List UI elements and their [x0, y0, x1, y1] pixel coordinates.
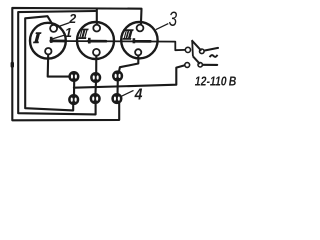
wire col2 row1-row2: [94, 82, 97, 95]
svg-text:12-110 В: 12-110 В: [195, 74, 237, 88]
leader line label 1: [51, 35, 64, 39]
wire lamp III bottom to col3 row1: [119, 55, 138, 71]
terminal block col3 row1: [112, 70, 123, 81]
lamp II center contact dash: [89, 40, 107, 43]
lamp socket III circle: [121, 22, 157, 58]
lamp III bottom terminal: [135, 49, 141, 55]
terminal block col2 row1: [90, 72, 101, 83]
ink blob on outer left wire: [11, 62, 14, 68]
terminal block col2 row2: [90, 93, 101, 104]
lamp III top terminal: [137, 25, 144, 32]
lamp II bottom terminal: [93, 49, 100, 56]
wire switch lower pole to supply: [202, 64, 217, 66]
terminal block col3 row2: [111, 93, 122, 104]
leader line label 2: [57, 23, 70, 27]
switch lower blade: [193, 56, 200, 64]
lamp I top terminal: [50, 25, 57, 32]
switch lower pole right contact: [198, 63, 202, 67]
terminal block col1 row1: [68, 71, 79, 82]
svg-text:4: 4: [134, 86, 143, 103]
svg-text:2: 2: [68, 12, 76, 26]
switch upper pole left contact: [185, 47, 190, 52]
switch lower pole left contact: [185, 63, 190, 68]
lamp III center contact dash: [134, 40, 151, 43]
wire drop to lamp II top terminal: [96, 9, 98, 25]
lamp I bottom terminal: [45, 48, 51, 54]
wire col1 row1-row2: [73, 81, 75, 96]
label socket III roman numeral: [123, 29, 134, 39]
wire lamp I bottom to col1 row1: [48, 54, 70, 76]
lamp I center contact dash: [51, 40, 65, 43]
wire loop W3 outer: col3 row2 to lamp III shell: [12, 8, 141, 120]
lamp I center contact tick: [50, 37, 53, 43]
lamp III center contact tick: [133, 38, 136, 43]
lamp socket I circle: [30, 23, 66, 59]
wire lamp II bottom to col2 row1: [95, 56, 97, 73]
lamp II top terminal: [93, 25, 100, 32]
wire col3 row1-row2: [116, 80, 118, 95]
leader line label 3: [156, 24, 168, 30]
wire switch upper pole to supply: [204, 48, 218, 51]
svg-text:3: 3: [169, 8, 178, 31]
lamp socket II circle: [77, 22, 114, 59]
lamp II center contact tick: [88, 38, 91, 44]
switch upper pole right contact: [200, 49, 205, 54]
switch link bar: [191, 41, 194, 57]
label socket II roman numeral: [78, 29, 89, 39]
svg-text:1: 1: [65, 25, 72, 40]
wire loop W2 middle: col2 row2 to lamp II shell: [18, 11, 95, 114]
terminal block col1 row2: [68, 94, 79, 105]
wire center-contact bus I-II-III to switch: [51, 41, 185, 50]
AC tilde: [210, 55, 218, 57]
switch upper blade: [192, 40, 202, 51]
label socket I roman numeral: [33, 32, 42, 43]
wire bottom bus to switch lower pole: [74, 65, 185, 88]
wire loop W1 inner: col1 row2 to lamp I shell: [25, 16, 73, 110]
leader line label 4: [121, 90, 133, 96]
